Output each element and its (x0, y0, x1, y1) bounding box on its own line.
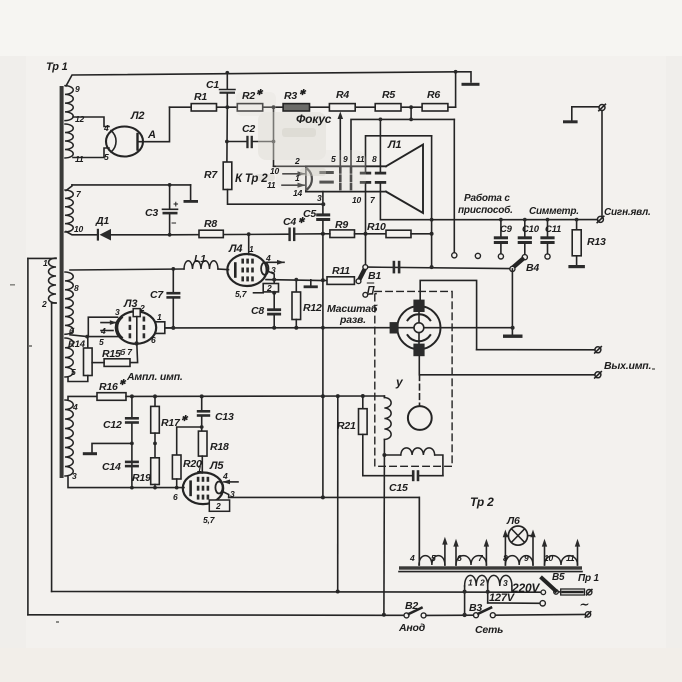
diode D1 (97, 229, 99, 241)
capacitor C10 (524, 220, 526, 237)
rail x=384.4 down (383, 455, 386, 615)
tube L5 envelope (183, 473, 223, 505)
yoke axis lines (398, 327, 441, 329)
svg-text:Л6: Л6 (506, 515, 520, 527)
wire tap2 to inner rail (52, 302, 56, 304)
CRT cathode arc (308, 169, 312, 189)
svg-text:10: 10 (74, 224, 84, 234)
svg-text:5,7: 5,7 (235, 289, 248, 299)
tube L5 pin4 arrow (224, 481, 238, 483)
Tp2 winding 10-11 (545, 556, 578, 565)
svg-text:разв.: разв. (339, 314, 366, 326)
resistor R9 (330, 230, 355, 238)
wire winding5 bottom to R14 bottom (68, 376, 88, 382)
terminal Rabota (597, 216, 603, 222)
svg-text:R18: R18 (210, 441, 229, 453)
svg-text:К Тр 2: К Тр 2 (235, 173, 268, 185)
svg-text:Работа с: Работа с (464, 192, 510, 204)
wire yoke bottom to lower Vykh terminal (419, 356, 595, 375)
svg-text:5,7: 5,7 (203, 515, 216, 525)
terminal after fuse (587, 590, 592, 595)
resistor R7 (223, 162, 232, 190)
CRT L1 gun body (306, 165, 386, 167)
svg-text:С2: С2 (242, 123, 255, 135)
svg-text:С11: С11 (545, 224, 561, 235)
tube L4 pin2 box (263, 284, 278, 292)
wire B2 to B3 (426, 614, 473, 616)
svg-text:В5: В5 (552, 572, 565, 583)
resistor R4 (329, 104, 355, 111)
svg-text:С4: С4 (283, 216, 296, 228)
switch B2 (404, 613, 409, 618)
wire B4 pivot down to ground (511, 269, 513, 334)
yoke left pole (390, 322, 399, 333)
svg-text:С14: С14 (102, 461, 121, 473)
supply wire y=396.4 (126, 395, 384, 397)
tube L3 pin2 top box (133, 309, 140, 317)
resistor R13 (576, 220, 578, 230)
svg-text:9: 9 (524, 553, 529, 563)
resistor R11 (323, 280, 327, 282)
127V open contact (540, 601, 545, 606)
Tp2 winding 8-9 (505, 556, 533, 565)
svg-text:Симметр.: Симметр. (529, 206, 579, 217)
svg-text:11: 11 (75, 154, 84, 164)
svg-text:R15: R15 (102, 348, 121, 360)
switch B5 contacts (541, 590, 546, 595)
resistor R19 (154, 443, 156, 457)
capacitor C11 (547, 220, 549, 237)
resistor R5 (375, 104, 401, 111)
wire to top-right ground (456, 72, 471, 82)
tube L4 pin1 lead (248, 234, 250, 254)
svg-text:Тр 1: Тр 1 (46, 61, 68, 73)
svg-text:3: 3 (72, 471, 77, 481)
svg-text:3: 3 (503, 578, 508, 588)
svg-text:5: 5 (331, 154, 336, 164)
mains bottom rail y=614.9 (28, 614, 404, 617)
transformer Tp1 winding 12-11 (65, 124, 73, 158)
svg-text:4: 4 (103, 123, 109, 133)
switch B4 pivot (510, 266, 515, 271)
tube L3 cathode junction blob (134, 341, 138, 345)
tube L5 pin3 electrode (215, 482, 222, 494)
wire focus wiper arrow under R4 (339, 117, 341, 166)
tube L4 envelope (227, 254, 266, 286)
resistor R3 (shaded) (283, 104, 309, 111)
svg-text:1: 1 (43, 258, 48, 268)
svg-text:R5: R5 (382, 89, 395, 101)
svg-text:R4: R4 (336, 89, 349, 101)
svg-text:5: 5 (431, 553, 436, 563)
Tp2 primary tap verticals (464, 586, 466, 615)
wire R5-R6 node down (410, 107, 412, 119)
svg-text:Пр 1: Пр 1 (578, 573, 599, 584)
svg-text:2: 2 (139, 303, 145, 313)
tube L3 grid dashes (129, 317, 146, 339)
wire yoke right to ground line (441, 327, 513, 329)
svg-text:2: 2 (266, 283, 272, 293)
svg-text:1: 1 (249, 244, 254, 254)
svg-text:R14: R14 (68, 339, 86, 350)
mains terminal (585, 612, 590, 617)
wire x=323 down to L5 output (322, 280, 324, 497)
node R10 right (430, 232, 434, 236)
svg-text:5: 5 (99, 337, 104, 347)
svg-text:Д1: Д1 (95, 215, 109, 227)
svg-text:R2: R2 (242, 90, 255, 102)
long wire y=327.7 to yoke (166, 327, 390, 329)
switch B1 lower contact (356, 279, 361, 284)
svg-text:1: 1 (295, 173, 300, 183)
wire pin10 down to R9-R10 node (365, 184, 367, 234)
tube L3 center grid line (136, 317, 138, 341)
svg-text:2: 2 (215, 501, 221, 511)
svg-text:Л2: Л2 (130, 110, 144, 122)
capacitor C5 (316, 213, 330, 216)
tube L4 cathode bar (234, 264, 237, 277)
wire junction column x=273.5 down to C2 and CRT pin2 (273, 107, 275, 166)
CRT grid 9 (dashed) (350, 168, 353, 191)
node C7 top (171, 267, 175, 271)
focus electrode circle (408, 406, 432, 430)
resistor R10 (386, 230, 411, 237)
ground on y=280 wire (310, 280, 312, 285)
tube L3 input box (88, 317, 117, 336)
svg-text:R3: R3 (284, 90, 297, 102)
svg-text:В2: В2 (405, 600, 418, 612)
lamp L6 (505, 535, 508, 537)
node R2-R3 (272, 105, 276, 109)
svg-text:∼: ∼ (579, 599, 589, 611)
wire L1 line y=269 (70, 269, 184, 270)
resistor R15 (104, 359, 130, 367)
capacitor C2 (227, 141, 246, 143)
svg-text:А: А (147, 129, 156, 141)
svg-text:R11: R11 (332, 265, 350, 277)
tube L5 cathode bar (189, 482, 192, 495)
svg-text:П: П (367, 284, 375, 296)
wire L3 pin1 to y=328 (165, 327, 174, 329)
wire R6 right to top (455, 72, 457, 107)
yoke inner arcs (408, 314, 431, 320)
tube L2 anode lead (138, 107, 170, 142)
Tp2 winding 6-7 (456, 556, 486, 565)
CRT flare (386, 145, 423, 214)
yoke inner rotor circle (414, 323, 424, 333)
tube L4 pin3 lead down (269, 272, 275, 293)
terminal Vykh.imp lower (595, 372, 601, 378)
terminal upper right (599, 105, 605, 111)
svg-text:С12: С12 (103, 419, 122, 431)
node C3 top (168, 183, 172, 187)
wire winding3 line y=487.6 (68, 477, 184, 488)
wire anode loop right down to B4 contact (453, 119, 455, 252)
svg-text:С7: С7 (150, 289, 164, 301)
rail x=337.8 down (337, 396, 339, 591)
sweep coil horizontal (384, 454, 400, 456)
svg-text:1: 1 (468, 578, 473, 588)
capacitor C1 (226, 73, 228, 89)
wire screen lead down (431, 136, 433, 220)
svg-text:4: 4 (222, 471, 228, 481)
switch B4 contact circle 2 (475, 253, 480, 258)
tube L3 grid-4 arrow (101, 322, 116, 324)
CRT heater arrows from Tp2 (283, 173, 304, 175)
svg-text:8: 8 (503, 553, 508, 563)
svg-text:5: 5 (104, 152, 109, 162)
wire x=323 C5 node down (322, 234, 324, 280)
resistor R1 (191, 104, 216, 111)
tube L4 grid dashes (241, 259, 253, 282)
tube L2 cathode arc (111, 131, 116, 153)
wire to upper Vykh terminal (477, 349, 595, 351)
scan smudge near focus area (236, 92, 366, 190)
node top-right corner (454, 70, 458, 74)
switch B1 position P contact (363, 292, 368, 297)
yoke bottom pole (413, 344, 424, 357)
svg-text:С1: С1 (206, 79, 219, 91)
svg-text:1: 1 (157, 312, 162, 322)
capacitor C15 (420, 475, 443, 477)
svg-text:9: 9 (343, 154, 348, 164)
ground arm near C12 (92, 443, 132, 451)
Tp1 tap numbers (41, 84, 109, 481)
terminal Vykh.imp upper (595, 347, 601, 353)
wire pin7 down to switch line (380, 184, 431, 220)
wire y=280 to R11 (266, 279, 323, 282)
svg-text:2: 2 (294, 156, 300, 166)
tube L5 pin2 box (209, 500, 229, 511)
transformer Tp1 winding 9-12 (65, 86, 73, 121)
transformer Tp1 core (60, 86, 64, 478)
svg-text:10: 10 (544, 553, 554, 563)
resistor R14 (87, 337, 89, 348)
svg-text:12: 12 (75, 114, 85, 124)
svg-text:С10: С10 (522, 224, 540, 235)
transformer Tp1 winding 7-10 (65, 190, 73, 232)
transformer Tp1 winding 4-3 (65, 400, 73, 476)
tube L2 envelope (106, 127, 143, 157)
tube L2 anode bar (136, 134, 138, 150)
switch B3 (474, 613, 479, 618)
resistor R17 (154, 396, 156, 406)
capacitor C8 (273, 293, 275, 309)
wire top from tap 9 (66, 72, 456, 86)
svg-text:С9: С9 (500, 224, 513, 235)
capacitor C12 (131, 396, 133, 416)
switch B4 contact circle (from anode loop) (452, 253, 457, 258)
sweep unit dashed box (375, 291, 452, 466)
wire tap11 to tube pin5 (73, 148, 109, 158)
resistor R18 (198, 431, 207, 456)
svg-text:2: 2 (41, 299, 47, 309)
wire tap10 to D1 line (66, 232, 97, 235)
node R5-R6 (409, 105, 413, 109)
svg-text:127V: 127V (489, 592, 516, 604)
wire B3 to mains terminal (495, 613, 585, 616)
Tp2 tap numbers (409, 553, 575, 588)
L3 pin labels (99, 303, 162, 357)
tube L3 pin1 bracket (155, 322, 165, 334)
switch B1 top contact (365, 234, 367, 265)
svg-text:2: 2 (479, 578, 485, 588)
wire tap7 (66, 185, 72, 191)
svg-text:Сеть: Сеть (475, 624, 503, 636)
wire yoke top up and to Vykh column (420, 280, 476, 349)
transformer Tp1 winding 6-5 (65, 338, 73, 377)
ground below B4 (503, 335, 523, 338)
svg-text:приспособ.: приспособ. (458, 204, 513, 216)
svg-text:11: 11 (267, 180, 276, 190)
wire between terminals x=602 (601, 111, 603, 217)
wire heater line y=185 (72, 184, 191, 186)
resistor R20 (172, 455, 181, 479)
svg-text:10: 10 (270, 166, 280, 176)
Tp2 primary winding (465, 575, 512, 586)
svg-text:Л1: Л1 (387, 139, 401, 151)
svg-text:R13: R13 (587, 236, 606, 248)
svg-text:9: 9 (75, 84, 80, 94)
svg-text:С5: С5 (303, 208, 316, 220)
node L4 pin1 on R8 line (247, 232, 251, 236)
resistor R6 (422, 104, 448, 111)
svg-text:6: 6 (151, 335, 156, 345)
wire tap6 to R14 node (70, 335, 88, 337)
transformer Tp1 winding 8-6 (65, 272, 73, 334)
capacitor C3 (electrolytic) (169, 185, 171, 209)
svg-text:Л4: Л4 (228, 243, 242, 255)
tube L4 pin3 electrode (261, 262, 268, 274)
svg-text:3: 3 (271, 265, 276, 275)
capacitor C4 (288, 228, 290, 242)
switch line (Rabota) y=219.7 (432, 219, 598, 221)
resistor R20 top link (177, 427, 202, 455)
tube L5 output wire (223, 492, 229, 498)
svg-text:R12: R12 (303, 302, 322, 314)
svg-text:Сигн.явл.: Сигн.явл. (604, 207, 651, 218)
wire L3 cathode to R15 (130, 343, 138, 362)
svg-text:14: 14 (293, 188, 303, 198)
svg-text:6: 6 (457, 553, 462, 563)
switch B4 lever (513, 259, 522, 267)
CRT deflection plates 8 (375, 172, 386, 175)
transformer Tp1 primary winding 1-2 (49, 258, 57, 303)
wire pin8 up (379, 119, 381, 171)
dashed link yoke to focus circle (419, 375, 421, 406)
wire C1 node down to R7 (226, 107, 228, 162)
svg-text:Фокус: Фокус (296, 112, 332, 126)
CRT grid bracket bars (319, 171, 333, 174)
wire left rail x=28 (27, 258, 29, 614)
capacitor C9 (500, 220, 502, 237)
svg-text:3: 3 (115, 307, 120, 317)
svg-text:10: 10 (352, 195, 362, 205)
resistor R21 top node (362, 396, 364, 409)
svg-text:б 7: б 7 (120, 347, 133, 357)
tube L5 grid dashes (197, 477, 209, 500)
wire tap1 to left rail (28, 257, 56, 259)
wire anode supply chain y=107 (170, 106, 456, 108)
ground top-right (462, 83, 480, 86)
svg-text:3: 3 (317, 193, 322, 203)
svg-text:С13: С13 (215, 411, 234, 423)
tube L3 envelope (116, 311, 156, 343)
wire x=431.6 down to C6 line (431, 220, 433, 267)
svg-text:R16: R16 (99, 381, 118, 393)
svg-text:4: 4 (100, 326, 106, 336)
svg-text:В4: В4 (526, 262, 539, 274)
wire L1 to tube L4 (218, 268, 229, 271)
deflection yoke circle (397, 306, 440, 349)
svg-text:Анод: Анод (398, 622, 426, 634)
svg-text:4: 4 (265, 253, 271, 263)
transformer Tp2 core bar (399, 566, 582, 569)
svg-text:3: 3 (230, 489, 235, 499)
svg-text:4: 4 (409, 553, 415, 563)
svg-text:1: 1 (197, 464, 202, 474)
CRT grid 5 (dashed) (339, 168, 342, 191)
sweep coil vertical (383, 396, 385, 398)
wire inner rail x=51.6 (51, 303, 53, 592)
svg-text:Вых.имп.: Вых.имп. (604, 360, 652, 372)
svg-text:R7: R7 (204, 169, 218, 181)
capacitor C14 (125, 461, 139, 464)
svg-text:R9: R9 (335, 219, 348, 231)
tube L4 pin4 arrow (267, 261, 284, 263)
inductor L1 (184, 261, 218, 269)
svg-text:R19: R19 (132, 472, 151, 484)
wire grid9 up and anode loop y=119.4 (351, 119, 454, 167)
capacitor C6 (393, 261, 396, 274)
dashed link to sweep box (369, 293, 377, 295)
tube L3 cathode arc (117, 318, 122, 338)
resistor R2 (237, 104, 262, 111)
svg-text:R17: R17 (161, 417, 181, 429)
svg-text:R10: R10 (367, 221, 386, 233)
svg-text:R6: R6 (427, 89, 440, 101)
resistor R16 (68, 396, 97, 400)
svg-text:5: 5 (71, 367, 76, 377)
svg-text:L1: L1 (194, 253, 206, 265)
svg-text:Л3: Л3 (123, 298, 137, 310)
svg-text:В3: В3 (469, 602, 482, 614)
wire pin3 column x=323 (322, 192, 324, 214)
svg-text:Тр 2: Тр 2 (470, 495, 494, 509)
mains rail y=591.5 (52, 591, 541, 594)
Tp2 winding 4-5 (418, 497, 420, 565)
svg-text:220V: 220V (511, 581, 540, 595)
wire plate-11 loop y=135.8 (366, 136, 432, 172)
CRT L1 pin2 wire (274, 165, 306, 167)
svg-text:R1: R1 (194, 91, 207, 103)
svg-text:Ампл. имп.: Ампл. имп. (126, 371, 183, 383)
switch B5 lever (542, 578, 556, 590)
CRT pin labels (267, 154, 377, 205)
svg-text:8: 8 (372, 154, 377, 164)
svg-text:4: 4 (72, 402, 78, 412)
svg-text:С8: С8 (251, 305, 264, 317)
CRT deflection plates 11 (360, 172, 371, 175)
svg-text:11: 11 (566, 553, 575, 563)
capacitor C7 (172, 269, 174, 292)
wire R8/C4 line y=234 (170, 233, 288, 236)
resistor R8 (199, 230, 223, 237)
wire R7 bottom to pin3 node (228, 190, 324, 205)
tube L4 pin2 wire (254, 292, 264, 294)
ground upper-right terminal (563, 120, 578, 123)
127V tap wire (488, 602, 540, 604)
